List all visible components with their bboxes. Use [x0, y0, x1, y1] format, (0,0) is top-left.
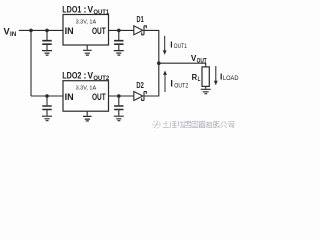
wire vertical VIN to LDO2 input [30, 30, 32, 96]
svg-text:R: R [192, 73, 198, 82]
wire LDO2 OUT to D2 anode [109, 95, 134, 97]
regulator LDO1 box [63, 15, 109, 46]
svg-text:LDO2: LDO2 [62, 70, 81, 81]
ground under C1 [42, 51, 52, 56]
svg-text::: : [83, 70, 86, 81]
svg-text:L: L [198, 77, 201, 83]
svg-text:V: V [191, 53, 197, 63]
ground under LDO2 [83, 111, 92, 121]
svg-text:OUT2: OUT2 [174, 84, 189, 90]
svg-text:OUT1: OUT1 [174, 44, 188, 50]
svg-text:V: V [88, 70, 94, 81]
svg-text:LOAD: LOAD [223, 76, 239, 82]
svg-text:I: I [220, 72, 222, 82]
svg-text:D2: D2 [136, 80, 144, 90]
ground under RL [201, 86, 211, 93]
svg-text:OUT2: OUT2 [93, 76, 109, 82]
svg-text:OUT: OUT [197, 59, 207, 65]
svg-text:IN: IN [65, 26, 74, 36]
node junction VIN tap [29, 29, 33, 33]
wire D1 cathode to corner down to VOUT rail [144, 30, 159, 63]
node junction C3 tap [45, 94, 49, 98]
svg-text:D1: D1 [137, 14, 144, 24]
diode D2 (schottky) [134, 92, 147, 101]
ground under C2 [114, 51, 124, 56]
capacitor C4 [114, 96, 123, 116]
ground under C3 [42, 116, 52, 121]
ground under C4 [114, 116, 124, 121]
svg-text:I: I [170, 39, 172, 49]
svg-text:3.3V, 1A: 3.3V, 1A [76, 86, 97, 92]
capacitor C1 [42, 30, 51, 50]
svg-text:IN: IN [65, 92, 74, 102]
svg-text:LDO1: LDO1 [62, 4, 82, 15]
svg-text:I: I [170, 79, 173, 89]
watermark text [163, 121, 234, 127]
svg-text:OUT: OUT [92, 92, 106, 102]
svg-text:OUT: OUT [92, 26, 106, 36]
node junction VOUT [157, 61, 161, 65]
watermark logo [153, 121, 160, 128]
node junction C1 tap [45, 29, 49, 33]
capacitor C3 [42, 96, 51, 116]
node junction C4 tap [117, 94, 121, 98]
svg-text:V: V [88, 4, 94, 15]
svg-text:3.3V, 1A: 3.3V, 1A [76, 19, 97, 25]
current arrow ILOAD [214, 66, 218, 85]
wire D2 cathode to corner up to VOUT rail [144, 63, 159, 96]
current arrow IOUT2 [163, 71, 167, 93]
wire VOUT rail to load [159, 63, 206, 67]
svg-text:IN: IN [10, 32, 16, 38]
svg-text:V: V [4, 26, 10, 36]
regulator LDO2 box [63, 81, 109, 112]
wire LDO2 IN [31, 95, 63, 97]
resistor RL [202, 67, 209, 87]
node junction C2 tap [117, 29, 121, 33]
ground under LDO1 [83, 45, 92, 55]
svg-text::: : [83, 4, 86, 15]
capacitor C2 [114, 30, 123, 50]
diode D1 (schottky) [134, 26, 147, 35]
svg-text:OUT1: OUT1 [93, 10, 109, 16]
wire VIN horizontal [19, 29, 63, 31]
current arrow IOUT1 [163, 36, 167, 55]
wire LDO1 OUT to D1 anode [109, 29, 134, 31]
